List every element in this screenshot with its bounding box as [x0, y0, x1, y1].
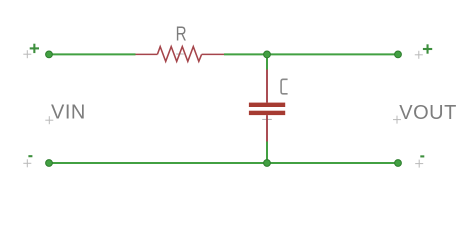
svg-text:R: R [176, 22, 187, 45]
wire vertical lower: capacitor to bottom node [266, 142, 268, 164]
svg-text:VIN: VIN [51, 101, 86, 123]
polarity label + (top-left) [30, 44, 39, 53]
wire top-left: VIN pin to resistor [49, 53, 136, 55]
node dot: VIN+ pin [46, 51, 53, 58]
node dot: VOUT- pin [395, 160, 402, 167]
anchor cross for label - (bottom-right) [415, 160, 423, 168]
anchor cross for label VOUT [393, 116, 401, 124]
anchor cross for label - (bottom-left) [23, 159, 31, 167]
anchor mark for resistor R value [176, 53, 184, 55]
anchor cross for label VIN [45, 116, 53, 124]
label C (clipped glyph) [281, 79, 288, 94]
polarity label + (top-right) [423, 44, 432, 53]
polarity label - (bottom-right) [420, 155, 424, 157]
svg-text:VOUT: VOUT [399, 102, 457, 124]
node dot: top junction [264, 51, 271, 58]
node dot: bottom junction [264, 160, 271, 167]
wire bottom rail [49, 162, 398, 164]
capacitor C [249, 70, 285, 142]
anchor cross for label + (top-right) [415, 51, 423, 59]
anchor cross for label + (top-left) [23, 50, 31, 58]
anchor mark for capacitor C value [262, 118, 272, 120]
node dot: VIN- pin [46, 160, 53, 167]
node dot: VOUT+ pin [395, 51, 402, 58]
wire top-right: resistor to VOUT pin (through node) [224, 53, 398, 55]
polarity label - (bottom-left) [28, 155, 32, 157]
wire vertical upper: top node to capacitor [266, 54, 268, 69]
resistor R [136, 47, 225, 62]
